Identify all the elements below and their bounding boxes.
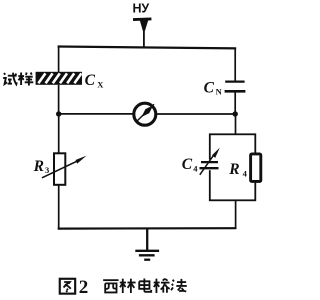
林	[120, 279, 136, 293]
wire middle left	[59, 113, 135, 115]
capacitor C4 (variable, on left edge)	[200, 148, 220, 175]
svg-text:4: 4	[193, 164, 198, 174]
caption 图2 西林电桥法	[60, 277, 187, 298]
capacitor CN	[225, 82, 246, 92]
svg-text:2: 2	[79, 277, 89, 298]
parallel box outline	[210, 134, 256, 200]
capacitor CX sample (hatched)	[36, 72, 82, 85]
R3 wiper arrow	[42, 156, 87, 178]
svg-text:C: C	[204, 80, 215, 97]
galvanometer	[134, 103, 156, 125]
wire left rail to sample	[58, 47, 60, 74]
svg-text:4: 4	[243, 169, 248, 179]
wire CN to node B	[234, 93, 236, 115]
sample label 试样	[3, 73, 33, 86]
wire right rail to CN	[234, 48, 236, 81]
wire top rail	[58, 47, 237, 49]
电	[139, 279, 151, 292]
svg-text:НУ: НУ	[133, 1, 150, 15]
label CN	[204, 80, 223, 97]
wire node A to R3	[58, 114, 60, 154]
svg-text:3: 3	[45, 165, 49, 175]
svg-text:C: C	[85, 72, 96, 89]
wire sample to node A	[58, 85, 60, 114]
node A	[56, 111, 61, 116]
svg-text:N: N	[216, 87, 223, 97]
wire R3 to bottom rail	[58, 185, 60, 230]
wire bottom rail	[58, 227, 237, 230]
terminal plug HV input	[133, 17, 151, 47]
node B	[233, 111, 238, 116]
桥	[154, 279, 170, 293]
wire node B to parallel box	[235, 114, 237, 135]
样	[18, 73, 33, 86]
图	[60, 279, 75, 294]
label C4	[182, 156, 198, 173]
wire parallel box to bottom rail	[235, 200, 237, 229]
label CX	[85, 72, 105, 90]
resistor R3	[54, 153, 65, 185]
resistor R4 (on right edge)	[251, 154, 261, 182]
svg-text:X: X	[97, 80, 104, 90]
svg-text:R: R	[33, 158, 44, 175]
wire middle right	[156, 113, 236, 115]
西	[103, 280, 118, 292]
label R4	[228, 161, 247, 178]
试	[3, 73, 17, 85]
svg-text:C: C	[182, 156, 193, 173]
法	[171, 279, 187, 292]
svg-text:R: R	[228, 161, 239, 178]
label R3	[33, 158, 50, 175]
ground	[135, 229, 159, 260]
